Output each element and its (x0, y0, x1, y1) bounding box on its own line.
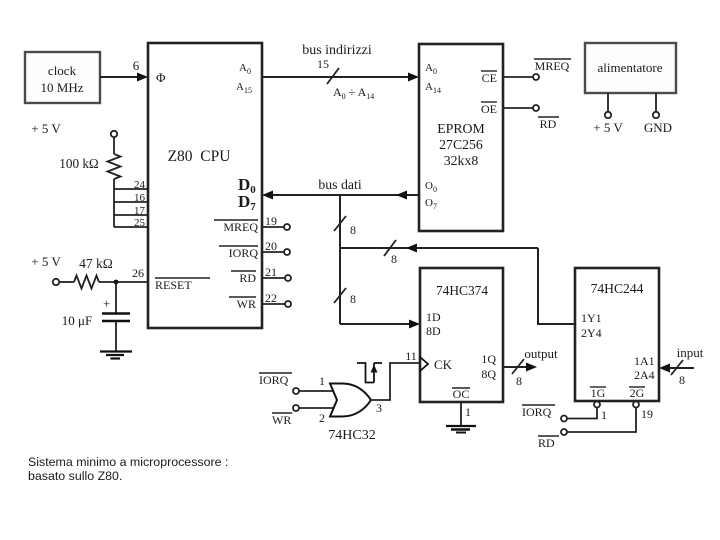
trunk width slash lower (334, 288, 346, 303)
svg-text:1D: 1D (426, 310, 441, 324)
svg-text:RESET: RESET (155, 278, 192, 292)
svg-text:21: 21 (265, 265, 277, 279)
svg-text:O7: O7 (425, 197, 437, 211)
EPROM OE pin label (481, 102, 497, 116)
svg-text:IORQ: IORQ (259, 373, 289, 387)
svg-text:11: 11 (405, 349, 417, 363)
svg-text:bus dati: bus dati (318, 177, 361, 192)
ground symbol at OC (446, 426, 476, 433)
1G pin label (590, 386, 606, 400)
svg-text:output: output (524, 346, 558, 361)
svg-text:25: 25 (134, 217, 146, 229)
svg-text:74HC32: 74HC32 (328, 428, 375, 443)
svg-text:1Y1: 1Y1 (581, 311, 602, 325)
svg-text:8: 8 (516, 374, 522, 388)
svg-text:Φ: Φ (156, 70, 166, 85)
svg-text:+ 5 V: + 5 V (31, 121, 61, 136)
svg-text:+ 5 V: + 5 V (593, 120, 623, 135)
OR gate input 1 terminal (293, 374, 334, 394)
address bus width slash (327, 68, 339, 84)
svg-text:+ 5 V: + 5 V (31, 254, 61, 269)
caption text (28, 455, 228, 483)
svg-text:74HC244: 74HC244 (591, 281, 644, 296)
svg-text:27C256: 27C256 (439, 137, 483, 152)
alimentatore power supply box (585, 43, 676, 93)
svg-text:19: 19 (265, 214, 277, 228)
EPROM name labels (437, 121, 485, 168)
svg-text:WR: WR (272, 413, 291, 427)
svg-text:32kx8: 32kx8 (444, 153, 479, 168)
svg-text:1: 1 (319, 374, 325, 388)
address bus wire CPU to EPROM (262, 73, 419, 82)
resistor R2 47 kOhm (74, 256, 113, 289)
svg-text:RD: RD (239, 271, 256, 285)
svg-text:OC: OC (453, 387, 470, 401)
svg-text:A14: A14 (425, 81, 441, 95)
svg-text:1: 1 (601, 408, 607, 422)
branch wire to 74HC244 outputs (340, 244, 538, 253)
svg-text:+: + (103, 296, 110, 311)
pull-up ladder wires to pins 24 16 17 25 (114, 189, 148, 227)
wire resistor R2 to RESET pin 26 (99, 281, 148, 283)
svg-text:2Y4: 2Y4 (581, 326, 602, 340)
trunk width slash upper (334, 216, 346, 231)
svg-text:2A4: 2A4 (634, 368, 655, 382)
RD net terminal at 2G (538, 429, 567, 450)
WR pin 22 stub (262, 291, 291, 307)
IORQ net label at OR gate (259, 373, 292, 387)
svg-text:8D: 8D (426, 324, 441, 338)
svg-text:MREQ: MREQ (535, 59, 570, 73)
svg-text:OE: OE (481, 102, 497, 116)
MREQ pin 19 stub (262, 214, 290, 230)
OR gate output wire to CK (371, 349, 420, 415)
wire resistor R1 to pin ladder (113, 179, 115, 227)
svg-text:47 kΩ: 47 kΩ (79, 256, 113, 271)
svg-text:RD: RD (538, 436, 555, 450)
svg-text:Z80 CPU: Z80 CPU (168, 148, 231, 165)
svg-text:1A1: 1A1 (634, 354, 655, 368)
+5V terminal for reset R2 (31, 254, 61, 285)
resistor R1 100 kOhm (59, 154, 120, 179)
wire +5V to resistor R1 (113, 137, 115, 154)
OR gate 74HC32 U3 (330, 384, 371, 417)
svg-text:2G: 2G (630, 386, 645, 400)
svg-text:8: 8 (391, 252, 397, 266)
74HC244 U5 box (575, 268, 659, 401)
svg-text:IORQ: IORQ (229, 246, 259, 260)
OC ground wire pin 1 (461, 402, 471, 426)
svg-text:bus indirizzi: bus indirizzi (302, 43, 372, 58)
wire capacitor to ground (115, 321, 117, 351)
svg-text:Sistema minimo a microprocesso: Sistema minimo a microprocessore : (28, 455, 228, 469)
svg-text:clock: clock (48, 63, 77, 78)
svg-text:1: 1 (465, 405, 471, 419)
IORQ net terminal at 1G (522, 405, 567, 422)
svg-text:20: 20 (265, 239, 277, 253)
svg-text:basato sullo Z80.: basato sullo Z80. (28, 469, 122, 483)
svg-text:A0: A0 (425, 62, 437, 76)
RD pin 21 stub (262, 265, 291, 281)
svg-text:10 MHz: 10 MHz (41, 80, 84, 95)
svg-text:17: 17 (134, 205, 146, 217)
svg-text:8: 8 (350, 292, 356, 306)
branch width slash (384, 240, 396, 256)
wire junction to capacitor C1 (115, 282, 117, 313)
RD pin label (231, 271, 256, 285)
svg-text:3: 3 (376, 401, 382, 415)
OE stub wire to RD net (503, 105, 539, 111)
svg-text:15: 15 (317, 57, 329, 71)
svg-text:1G: 1G (591, 386, 606, 400)
svg-text:22: 22 (265, 291, 277, 305)
2G pin label (629, 386, 645, 400)
svg-text:1Q: 1Q (481, 352, 496, 366)
svg-text:8Q: 8Q (481, 367, 496, 381)
RESET pin label (155, 278, 210, 292)
output width slash (512, 359, 524, 374)
RD net label (538, 117, 559, 131)
ground symbol (100, 352, 132, 359)
svg-text:8: 8 (679, 373, 685, 387)
svg-text:A0: A0 (239, 62, 251, 76)
data bus wire to 74HC374 D inputs (340, 320, 420, 329)
input bus arrow into 74HC244 (659, 364, 694, 373)
svg-text:MREQ: MREQ (223, 220, 258, 234)
svg-text:8: 8 (350, 223, 356, 237)
74HC374 U4 box (420, 268, 503, 402)
CK clock wedge (420, 357, 428, 371)
WR net label at OR gate (272, 413, 292, 427)
svg-text:19: 19 (641, 407, 653, 421)
svg-text:2: 2 (319, 411, 325, 425)
junction node (114, 280, 119, 285)
clock oscillator box (25, 52, 100, 103)
Z80 CPU U1 box (148, 43, 262, 328)
OC pin label (452, 387, 470, 401)
svg-text:26: 26 (132, 266, 144, 280)
EPROM CE pin label (481, 71, 497, 85)
svg-text:CK: CK (434, 357, 453, 372)
svg-text:10 μF: 10 μF (62, 313, 92, 328)
svg-text:RD: RD (540, 117, 557, 131)
MREQ net label (534, 59, 571, 73)
svg-text:74HC374: 74HC374 (436, 283, 488, 298)
MREQ pin label (214, 220, 258, 234)
svg-text:A15: A15 (236, 81, 252, 95)
+5V supply lead (605, 93, 611, 118)
svg-text:alimentatore: alimentatore (598, 60, 663, 75)
GND supply lead (653, 93, 659, 118)
rising edge pulse symbol (357, 363, 382, 383)
data bus wire EPROM to CPU (262, 191, 419, 200)
CE stub wire to MREQ net (503, 74, 539, 80)
svg-text:GND: GND (644, 120, 672, 135)
74HC244 output wire to data bus branch (538, 248, 575, 324)
2G enable terminal (567, 402, 653, 433)
1G enable terminal (567, 402, 607, 423)
svg-text:100 kΩ: 100 kΩ (59, 156, 99, 171)
wire clock to CPU clock pin (100, 73, 148, 82)
EPROM U2 box (419, 44, 503, 231)
+5V terminal for pull-up R1 (31, 121, 117, 137)
wire +5V to resistor R2 (59, 281, 74, 283)
svg-text:CE: CE (482, 71, 497, 85)
svg-text:EPROM: EPROM (437, 121, 485, 136)
svg-text:IORQ: IORQ (522, 405, 552, 419)
svg-text:O0: O0 (425, 180, 437, 194)
WR pin label (229, 297, 256, 311)
svg-text:input: input (677, 345, 704, 360)
input width slash (671, 360, 683, 375)
svg-text:WR: WR (237, 297, 256, 311)
data bus vertical trunk (339, 195, 341, 324)
svg-text:16: 16 (134, 192, 146, 204)
output bus arrow from 74HC374 (503, 363, 537, 372)
svg-text:6: 6 (133, 58, 140, 73)
svg-text:24: 24 (134, 179, 146, 191)
svg-text:A0 ÷ A14: A0 ÷ A14 (333, 85, 374, 101)
IORQ pin label (219, 246, 258, 260)
OR gate input 2 terminal (293, 405, 334, 425)
IORQ pin 20 stub (262, 239, 290, 255)
capacitor C1 10uF (62, 296, 130, 328)
